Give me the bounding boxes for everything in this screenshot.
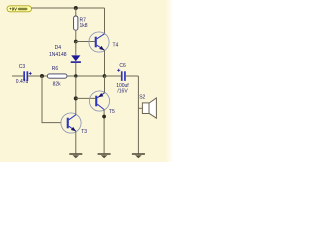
supply pill +9V: [7, 6, 32, 12]
wire T4 emitter down to output node: [104, 50, 106, 76]
svg-text:S2: S2: [139, 94, 145, 100]
ground under T3: [69, 154, 82, 158]
svg-text:T3: T3: [81, 129, 87, 135]
svg-text:T4: T4: [113, 43, 119, 49]
wire T3 collector up to node D: [75, 98, 77, 114]
svg-text:+9V: +9V: [9, 6, 17, 11]
node rail/R7 junction: [74, 6, 78, 10]
diode D4: [49, 42, 81, 77]
wire node D to T5 base: [76, 97, 96, 99]
svg-text:T5: T5: [109, 109, 115, 115]
wire T5 emitter up to output node: [104, 76, 106, 93]
capacitor C6: [105, 63, 139, 94]
transistor T3: [61, 113, 87, 135]
wire T3 emitter to ground: [75, 131, 77, 154]
resistor R7: [74, 16, 88, 30]
svg-text:D4: D4: [55, 45, 62, 51]
svg-text:1N4148: 1N4148: [49, 52, 67, 58]
transistor T4: [89, 32, 119, 52]
node C3/R6/T3-base junction: [40, 74, 44, 78]
node output junction: [103, 74, 107, 78]
wire node B down to node D: [75, 76, 77, 98]
wire top rail: [32, 7, 105, 9]
wire R6 to output node: [67, 75, 105, 77]
node B (D4 cathode / R6 / T3 collector): [74, 74, 77, 77]
wire R7 top lead: [75, 8, 77, 16]
wire junction down to T3/T5 branch: [42, 76, 61, 123]
wire stub to speaker: [138, 107, 142, 109]
node A: [74, 40, 78, 44]
capacitor C3: [12, 64, 47, 85]
wire node A to T4 base: [76, 41, 95, 43]
speaker S2: [139, 94, 156, 118]
resistor R6: [47, 66, 67, 87]
svg-text:C6: C6: [119, 63, 126, 69]
svg-text:C3: C3: [19, 64, 26, 70]
node under T5: [102, 115, 106, 119]
svg-text:R6: R6: [52, 66, 59, 72]
svg-text:1k8: 1k8: [80, 23, 88, 29]
wire T5 collector down to ground: [103, 110, 105, 155]
transistor T5: [89, 91, 115, 115]
wire R7 to node A: [75, 30, 77, 41]
ground under speaker: [132, 154, 145, 158]
schematic cream background: [0, 0, 166, 162]
node D (T3 collector / T5 base): [74, 96, 78, 100]
svg-text:/16V: /16V: [117, 88, 128, 94]
svg-text:82k: 82k: [53, 81, 62, 87]
wire rail down to T4 collector: [104, 8, 106, 34]
ground under T5: [98, 154, 111, 158]
wire C6 down to ground (speaker branch): [137, 76, 139, 153]
svg-text:0.47u: 0.47u: [16, 79, 29, 85]
